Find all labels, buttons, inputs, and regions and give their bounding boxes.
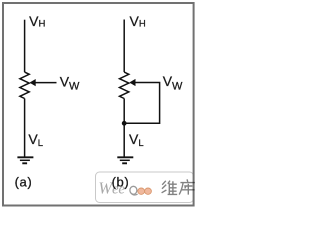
junction dot (b)	[122, 121, 127, 126]
watermark chinese 维	[162, 181, 178, 195]
svg-text:(a): (a)	[15, 175, 33, 190]
potentiometer R (a) zigzag	[20, 72, 29, 98]
orange o1	[138, 188, 145, 194]
wire bottom (a)	[24, 99, 26, 157]
svg-text:e: e	[118, 182, 125, 198]
watermark chinese 库	[179, 179, 195, 194]
script Q	[130, 186, 138, 195]
wiper arrowhead (b)	[129, 79, 135, 86]
watermark box	[96, 172, 194, 203]
wire top (a)	[24, 20, 26, 72]
wire bottom (b)	[123, 99, 125, 157]
ground (b)	[117, 157, 133, 163]
orange o2	[145, 188, 152, 194]
watermark text WeeQoo	[98, 179, 151, 198]
wiper wire (a)	[35, 82, 57, 84]
potentiometer R (b) zigzag	[120, 72, 129, 98]
ground (a)	[17, 157, 33, 163]
frame border	[3, 3, 194, 206]
wire top (b)	[123, 20, 125, 73]
wiper arrowhead (a)	[30, 79, 36, 86]
wiper wire to corner (b)	[126, 83, 160, 124]
